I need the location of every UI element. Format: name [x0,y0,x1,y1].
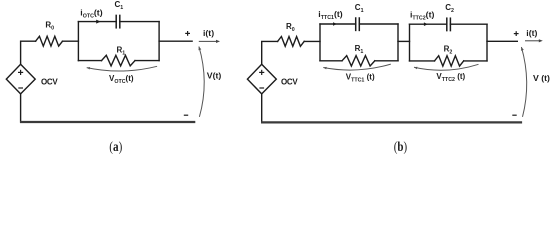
svg-text:V (t): V (t) [533,73,550,83]
svg-text:i(t): i(t) [203,28,214,38]
svg-text:OCV: OCV [281,78,298,87]
svg-text:i(t): i(t) [526,28,537,38]
svg-text:(b): (b) [394,140,408,155]
svg-text:OCV: OCV [41,78,58,87]
svg-text:(a): (a) [109,140,122,155]
svg-text:V(t): V(t) [207,71,222,81]
